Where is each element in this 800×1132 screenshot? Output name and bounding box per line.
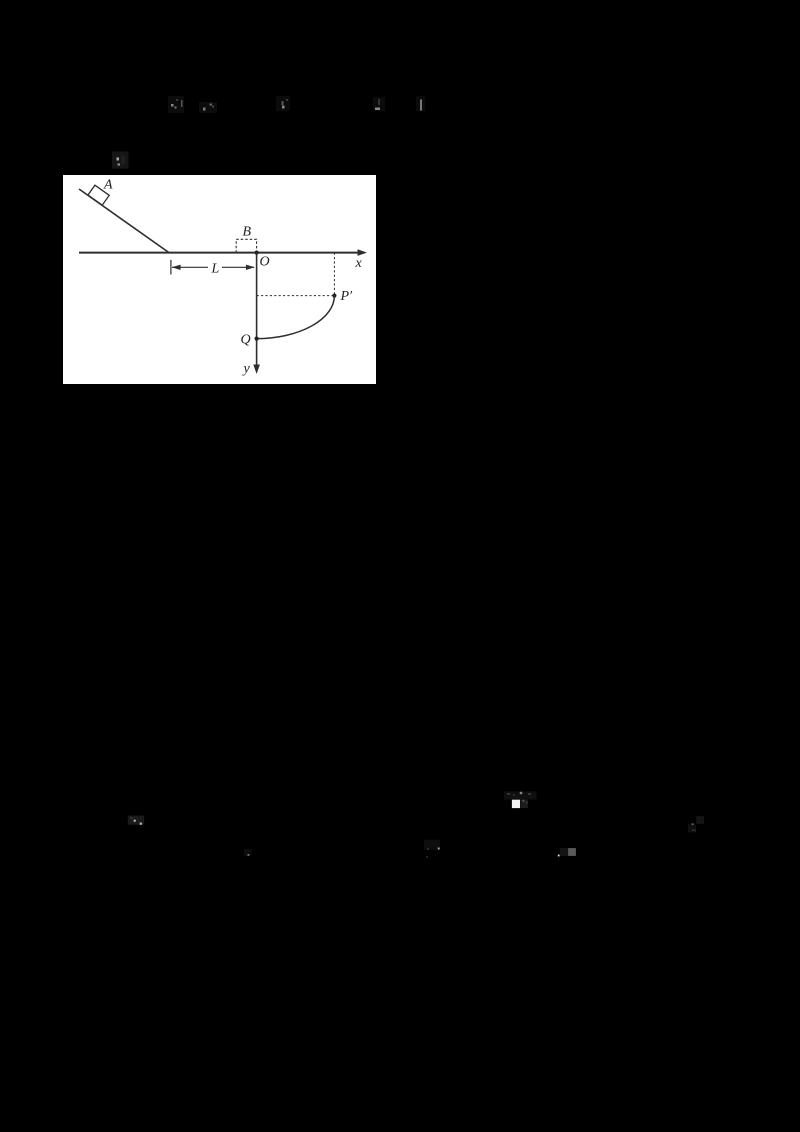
fragment h2 (y~816-832)	[688, 816, 704, 832]
incline surface	[79, 189, 169, 253]
fragment f3	[276, 96, 290, 111]
fragment f4	[373, 97, 385, 111]
fragment f1	[168, 96, 184, 113]
fragment i1 (y~850)	[244, 849, 252, 856]
fragment f5	[416, 96, 425, 111]
dashed box B	[236, 239, 256, 252]
dashed vertical line to P'	[333, 253, 335, 296]
ground line / x-axis	[79, 252, 360, 254]
L measure right arrow	[222, 266, 254, 268]
point P'	[332, 294, 336, 298]
fragment f6 (y~152)	[112, 152, 129, 169]
y-axis arrowhead	[253, 365, 260, 375]
fragment g2 right of white square	[520, 800, 528, 808]
arc P' to Q	[257, 296, 335, 339]
origin dot O	[255, 251, 259, 255]
x-axis arrowhead	[358, 249, 368, 256]
fragment i3 (y~848-856)	[558, 848, 576, 856]
point Q	[255, 337, 259, 341]
dashed horizontal line to P'	[257, 295, 335, 297]
white square fragment	[512, 800, 520, 808]
L measure left arrow	[172, 266, 208, 268]
fragment i2 (y~840-864)	[424, 840, 440, 858]
block A on incline	[88, 185, 109, 205]
figure box (white panel with physics diagram)	[63, 175, 376, 384]
y-axis	[256, 253, 258, 367]
fragment h1 (y~816)	[128, 816, 144, 825]
fragment f2	[199, 102, 217, 113]
L measure left tick	[170, 260, 172, 275]
fragment g1 strip above white square	[504, 792, 537, 800]
